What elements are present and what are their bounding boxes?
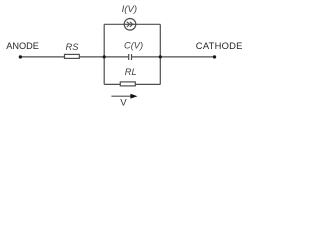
current source arrow line (124, 23, 136, 25)
svg-text:C(V): C(V) (124, 41, 143, 51)
node A junction dot (103, 55, 106, 58)
current source chevron 2 (130, 22, 133, 27)
wire RS to node A (79, 56, 104, 58)
current source chevron 1 (127, 22, 130, 27)
wire bottom right segment (135, 83, 160, 85)
svg-text:RL: RL (125, 67, 137, 77)
wire node A to capacitor (104, 56, 128, 58)
node anode dot (19, 55, 22, 58)
current source U1 circle (124, 19, 136, 31)
arrow V head (130, 94, 137, 99)
node cathode dot (213, 55, 216, 58)
wire anode to RS (20, 56, 64, 58)
wire top right segment (136, 23, 161, 25)
svg-text:V: V (120, 97, 127, 108)
resistor RL (120, 82, 135, 86)
svg-text:CATHODE: CATHODE (196, 40, 243, 51)
svg-text:ANODE: ANODE (6, 41, 39, 51)
wire right vertical (159, 24, 161, 84)
node B junction dot (159, 55, 162, 58)
resistor RS (65, 54, 80, 58)
wire left vertical (103, 24, 105, 84)
wire capacitor to node B (132, 56, 161, 58)
capacitor C(V) (129, 54, 132, 60)
svg-text:I(V): I(V) (122, 4, 137, 15)
wire top left segment (104, 23, 124, 25)
svg-text:RS: RS (66, 42, 80, 52)
arrow V line (111, 95, 131, 97)
wire node B to cathode (160, 56, 214, 58)
wire bottom left segment (104, 83, 120, 85)
